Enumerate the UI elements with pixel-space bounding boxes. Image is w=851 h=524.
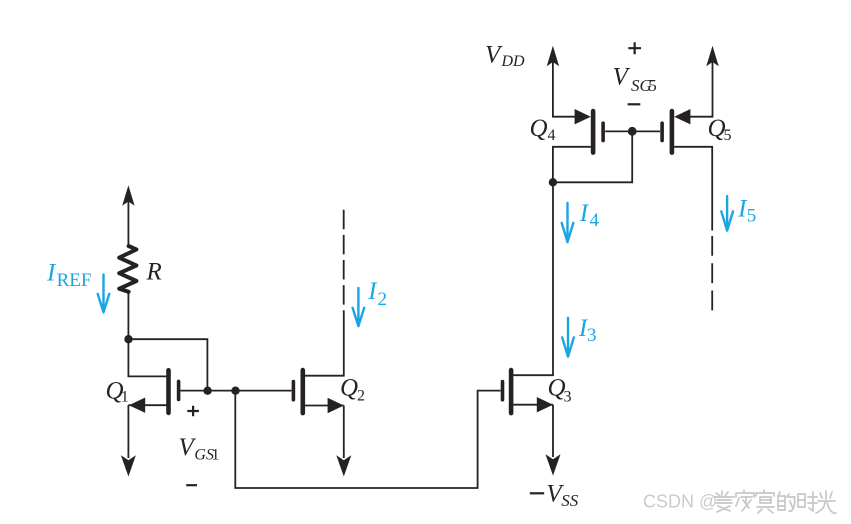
wire: dashed drain continuation below Q5 xyxy=(711,236,713,312)
svg-text:REF: REF xyxy=(57,270,92,291)
wire: Q1 diode connection (gate to drain) xyxy=(128,339,207,390)
svg-text:4: 4 xyxy=(590,210,600,231)
wire: resistor bottom to Q1 drain xyxy=(128,292,166,377)
current arrow I3 xyxy=(562,318,574,357)
wire: Q2 drain lead xyxy=(305,312,344,376)
transistor Q3 source arrow xyxy=(537,397,553,412)
transistor Q5 source arrow xyxy=(674,109,690,124)
svg-text:2: 2 xyxy=(378,289,388,310)
transistor Q4 gate bar xyxy=(601,123,605,140)
svg-text:4: 4 xyxy=(548,127,556,144)
node: drain/gate junction of Q1 xyxy=(124,335,132,343)
svg-text:5: 5 xyxy=(648,76,657,95)
wire: Q1 source down lead xyxy=(127,405,129,458)
label plus of VSG5 xyxy=(628,42,641,54)
resistor R xyxy=(119,246,136,292)
wire: Q2 bottom arrow (down) xyxy=(336,455,351,476)
current arrow I4 xyxy=(562,203,574,242)
current arrow IREF xyxy=(98,275,110,313)
svg-text:3: 3 xyxy=(564,389,572,406)
wire: dashed drain continuation above Q2 xyxy=(343,210,345,312)
wire: VDD arrow right (up) xyxy=(706,46,718,67)
transistor Q5 channel bar xyxy=(670,111,675,153)
wire: Q2 source down lead xyxy=(343,406,345,459)
current arrow I2 xyxy=(353,288,365,326)
wire: Q2 source lead xyxy=(305,405,344,407)
wire: Q5 drain lead xyxy=(674,147,712,231)
wire: VDD lead of resistor branch (vertical above R) xyxy=(127,200,129,246)
node: Q4 gate junction xyxy=(628,127,637,136)
svg-text:DD: DD xyxy=(501,53,526,70)
svg-text:1: 1 xyxy=(212,446,220,463)
svg-text:5: 5 xyxy=(747,206,757,227)
node: Q4 drain junction xyxy=(549,178,557,186)
watermark CSDN xyxy=(643,492,717,512)
label -VSS xyxy=(530,492,544,494)
wire: minus sign of VGS1 xyxy=(186,484,197,486)
transistor Q3 channel bar xyxy=(509,370,514,413)
wire: gate bus Q4-Q5 xyxy=(605,130,660,132)
svg-text:CSDN @: CSDN @ xyxy=(643,492,717,512)
label plus of VGS1 xyxy=(187,406,199,417)
node: gate bus junction B xyxy=(231,387,239,395)
transistor Q4 source arrow xyxy=(575,109,591,124)
svg-text:Q: Q xyxy=(340,375,358,402)
transistor Q1 gate bar xyxy=(177,381,181,399)
transistor Q1 channel bar xyxy=(166,370,171,413)
current arrow I5 xyxy=(721,196,733,231)
wire: minus sign of VSG5 xyxy=(628,103,641,105)
transistor Q1 source arrow xyxy=(129,398,145,413)
svg-text:5: 5 xyxy=(724,127,732,144)
node: gate bus junction A xyxy=(203,387,211,395)
svg-text:V: V xyxy=(613,64,631,91)
wire: Q3 source lead xyxy=(513,404,553,406)
transistor Q2 source arrow xyxy=(328,398,344,413)
svg-text:SS: SS xyxy=(561,491,579,510)
watermark CJK glyph strokes xyxy=(714,490,836,513)
transistor Q2 gate bar xyxy=(292,382,296,400)
transistor Q2 channel bar xyxy=(300,370,305,413)
svg-text:V: V xyxy=(485,41,503,68)
wire: -VSS arrow (down) xyxy=(546,454,561,475)
transistor Q5 gate bar xyxy=(660,123,664,140)
svg-text:I: I xyxy=(46,260,57,287)
svg-text:1: 1 xyxy=(121,389,129,406)
wire: VDD lead to Q4 source xyxy=(553,60,576,117)
wire: Q1 source lead xyxy=(128,404,166,406)
svg-text:2: 2 xyxy=(357,388,365,405)
wire: Q4 diode connection (gate loop to drain node) xyxy=(553,131,632,182)
svg-text:3: 3 xyxy=(587,325,597,346)
wire: bottom rail from gate bus to Q3 gate xyxy=(235,391,500,488)
wire: Q4 drain lead down to node xyxy=(553,147,591,183)
wire: VDD lead to Q5 source xyxy=(689,60,713,117)
transistor Q3 gate bar xyxy=(501,382,505,400)
svg-text:Q: Q xyxy=(530,115,548,142)
wire: Q3 drain lead up to Q4 drain node xyxy=(513,182,553,375)
wire: gate bus Q1-Q2 xyxy=(180,390,291,392)
wire: resistor top arrow (up) xyxy=(122,185,134,206)
wire: VDD arrow left (up) xyxy=(547,46,559,67)
wire: Q1 bottom arrow (down) xyxy=(121,455,136,476)
svg-text:I: I xyxy=(579,200,590,227)
wire: Q3 source down lead to -VSS xyxy=(552,405,554,457)
svg-text:R: R xyxy=(146,258,162,285)
transistor Q4 channel bar xyxy=(591,111,596,153)
